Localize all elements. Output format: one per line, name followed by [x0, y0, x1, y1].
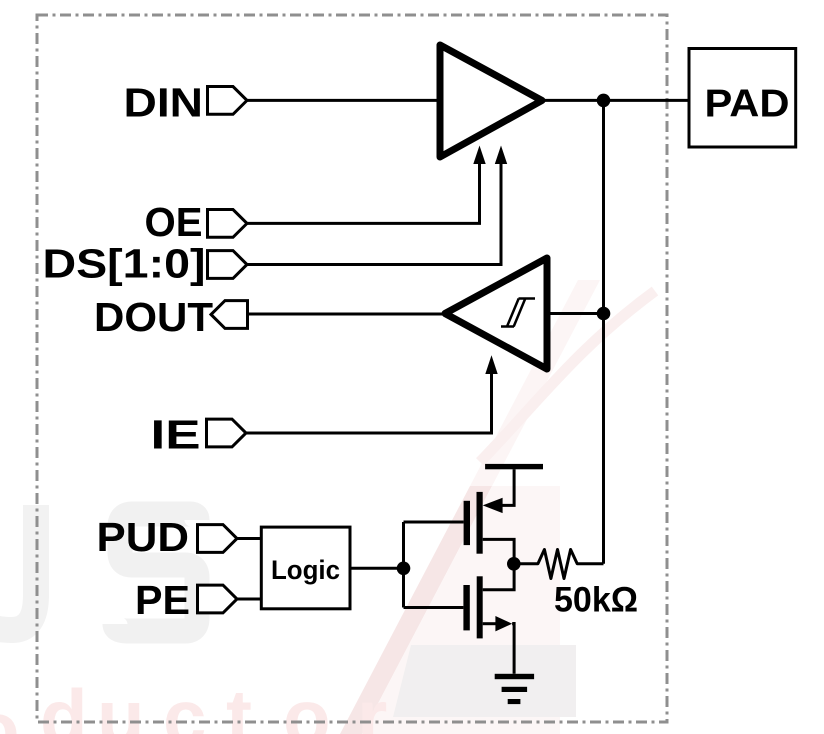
- node junction pad-top: [597, 94, 611, 108]
- dashed boundary frame: [37, 15, 667, 722]
- ground symbol bar3: [508, 699, 521, 704]
- transistor Q1 PMOS drain wire: [483, 539, 514, 563]
- transistor Q2 NMOS source arrow: [495, 616, 512, 631]
- resistor R1 50k: [514, 550, 604, 579]
- watermark background letter U (light gray): [0, 505, 36, 630]
- logic block: [261, 527, 350, 609]
- svg-text:PAD: PAD: [705, 82, 790, 125]
- svg-text:50kΩ: 50kΩ: [554, 580, 638, 619]
- wire buffer output to PAD: [542, 99, 689, 102]
- PAD box: [689, 49, 796, 148]
- svg-text:DS[1:0]: DS[1:0]: [43, 241, 206, 287]
- arrowhead OE: [473, 146, 485, 165]
- port DOUT: [211, 301, 248, 329]
- wire gate net vertical: [402, 522, 405, 608]
- arrowhead IE: [485, 355, 497, 374]
- svg-text:r: r: [357, 673, 387, 734]
- node junction drain-resistor: [507, 557, 521, 571]
- svg-text:DIN: DIN: [124, 80, 204, 126]
- wire VDD to PMOS source: [500, 469, 514, 505]
- transistor Q1 PMOS source arrow: [483, 498, 503, 513]
- transistor Q2 NMOS drain wire: [483, 564, 514, 590]
- wire IE to schmitt enable: [246, 372, 492, 433]
- ground symbol bar2: [502, 687, 527, 692]
- svg-text:OE: OE: [145, 199, 203, 245]
- arrowhead DS: [495, 146, 507, 165]
- wire to PMOS gate: [404, 521, 464, 524]
- svg-text:o: o: [0, 685, 20, 734]
- output buffer U1: [440, 45, 542, 157]
- transistor Q2 NMOS channel bar: [477, 576, 483, 638]
- wire schmitt input from PAD net: [547, 312, 604, 315]
- wire DIN to buffer: [247, 99, 437, 102]
- watermark background letter S (light gray): [115, 514, 197, 631]
- node junction gate-net: [397, 562, 411, 576]
- wire DS to buffer drive-strength: [247, 162, 501, 265]
- wire NMOS source to ground: [512, 622, 514, 674]
- wire to NMOS gate: [404, 606, 464, 609]
- wire logic output: [350, 567, 404, 570]
- port PE: [198, 585, 238, 613]
- svg-text:d: d: [40, 673, 88, 734]
- svg-text:o: o: [283, 673, 331, 734]
- wire schmitt to DOUT: [248, 313, 443, 316]
- svg-text:c: c: [163, 673, 206, 734]
- watermark text ductor (faint pink): [0, 673, 387, 734]
- svg-text:Logic: Logic: [271, 555, 340, 585]
- port PUD: [198, 525, 238, 553]
- watermark swoosh arc: [480, 291, 655, 462]
- ground symbol bar1: [495, 674, 534, 679]
- watermark gray block bottom: [393, 645, 576, 717]
- svg-text:t: t: [226, 673, 252, 734]
- schmitt hysteresis symbol: [501, 299, 535, 327]
- input schmitt buffer U2: [445, 258, 547, 369]
- svg-text:u: u: [97, 673, 145, 734]
- node junction schmitt-pad: [597, 307, 611, 321]
- port OE: [208, 210, 248, 238]
- svg-text:IE: IE: [151, 411, 201, 457]
- VDD power rail: [485, 464, 543, 469]
- wire OE to buffer enable: [247, 162, 480, 223]
- port IE: [207, 419, 247, 447]
- watermark pink wash: [362, 486, 560, 734]
- svg-text:PUD: PUD: [97, 514, 190, 560]
- watermark pink swoosh lower (letter A leg): [340, 486, 492, 734]
- transistor Q2 NMOS source wire: [483, 622, 497, 625]
- transistor Q1 PMOS channel bar: [477, 492, 483, 554]
- wire PAD net vertical: [602, 100, 605, 563]
- svg-text:DOUT: DOUT: [94, 294, 213, 340]
- watermark pink swoosh upper: [470, 280, 600, 486]
- svg-text:PE: PE: [135, 577, 190, 623]
- transistor Q1 PMOS gate bar: [464, 501, 470, 545]
- transistor Q2 NMOS gate bar: [463, 585, 469, 630]
- wire PUD to logic: [237, 537, 261, 540]
- wire PE to logic: [237, 598, 261, 601]
- port DIN: [208, 87, 248, 115]
- port DS[1:0]: [208, 251, 248, 279]
